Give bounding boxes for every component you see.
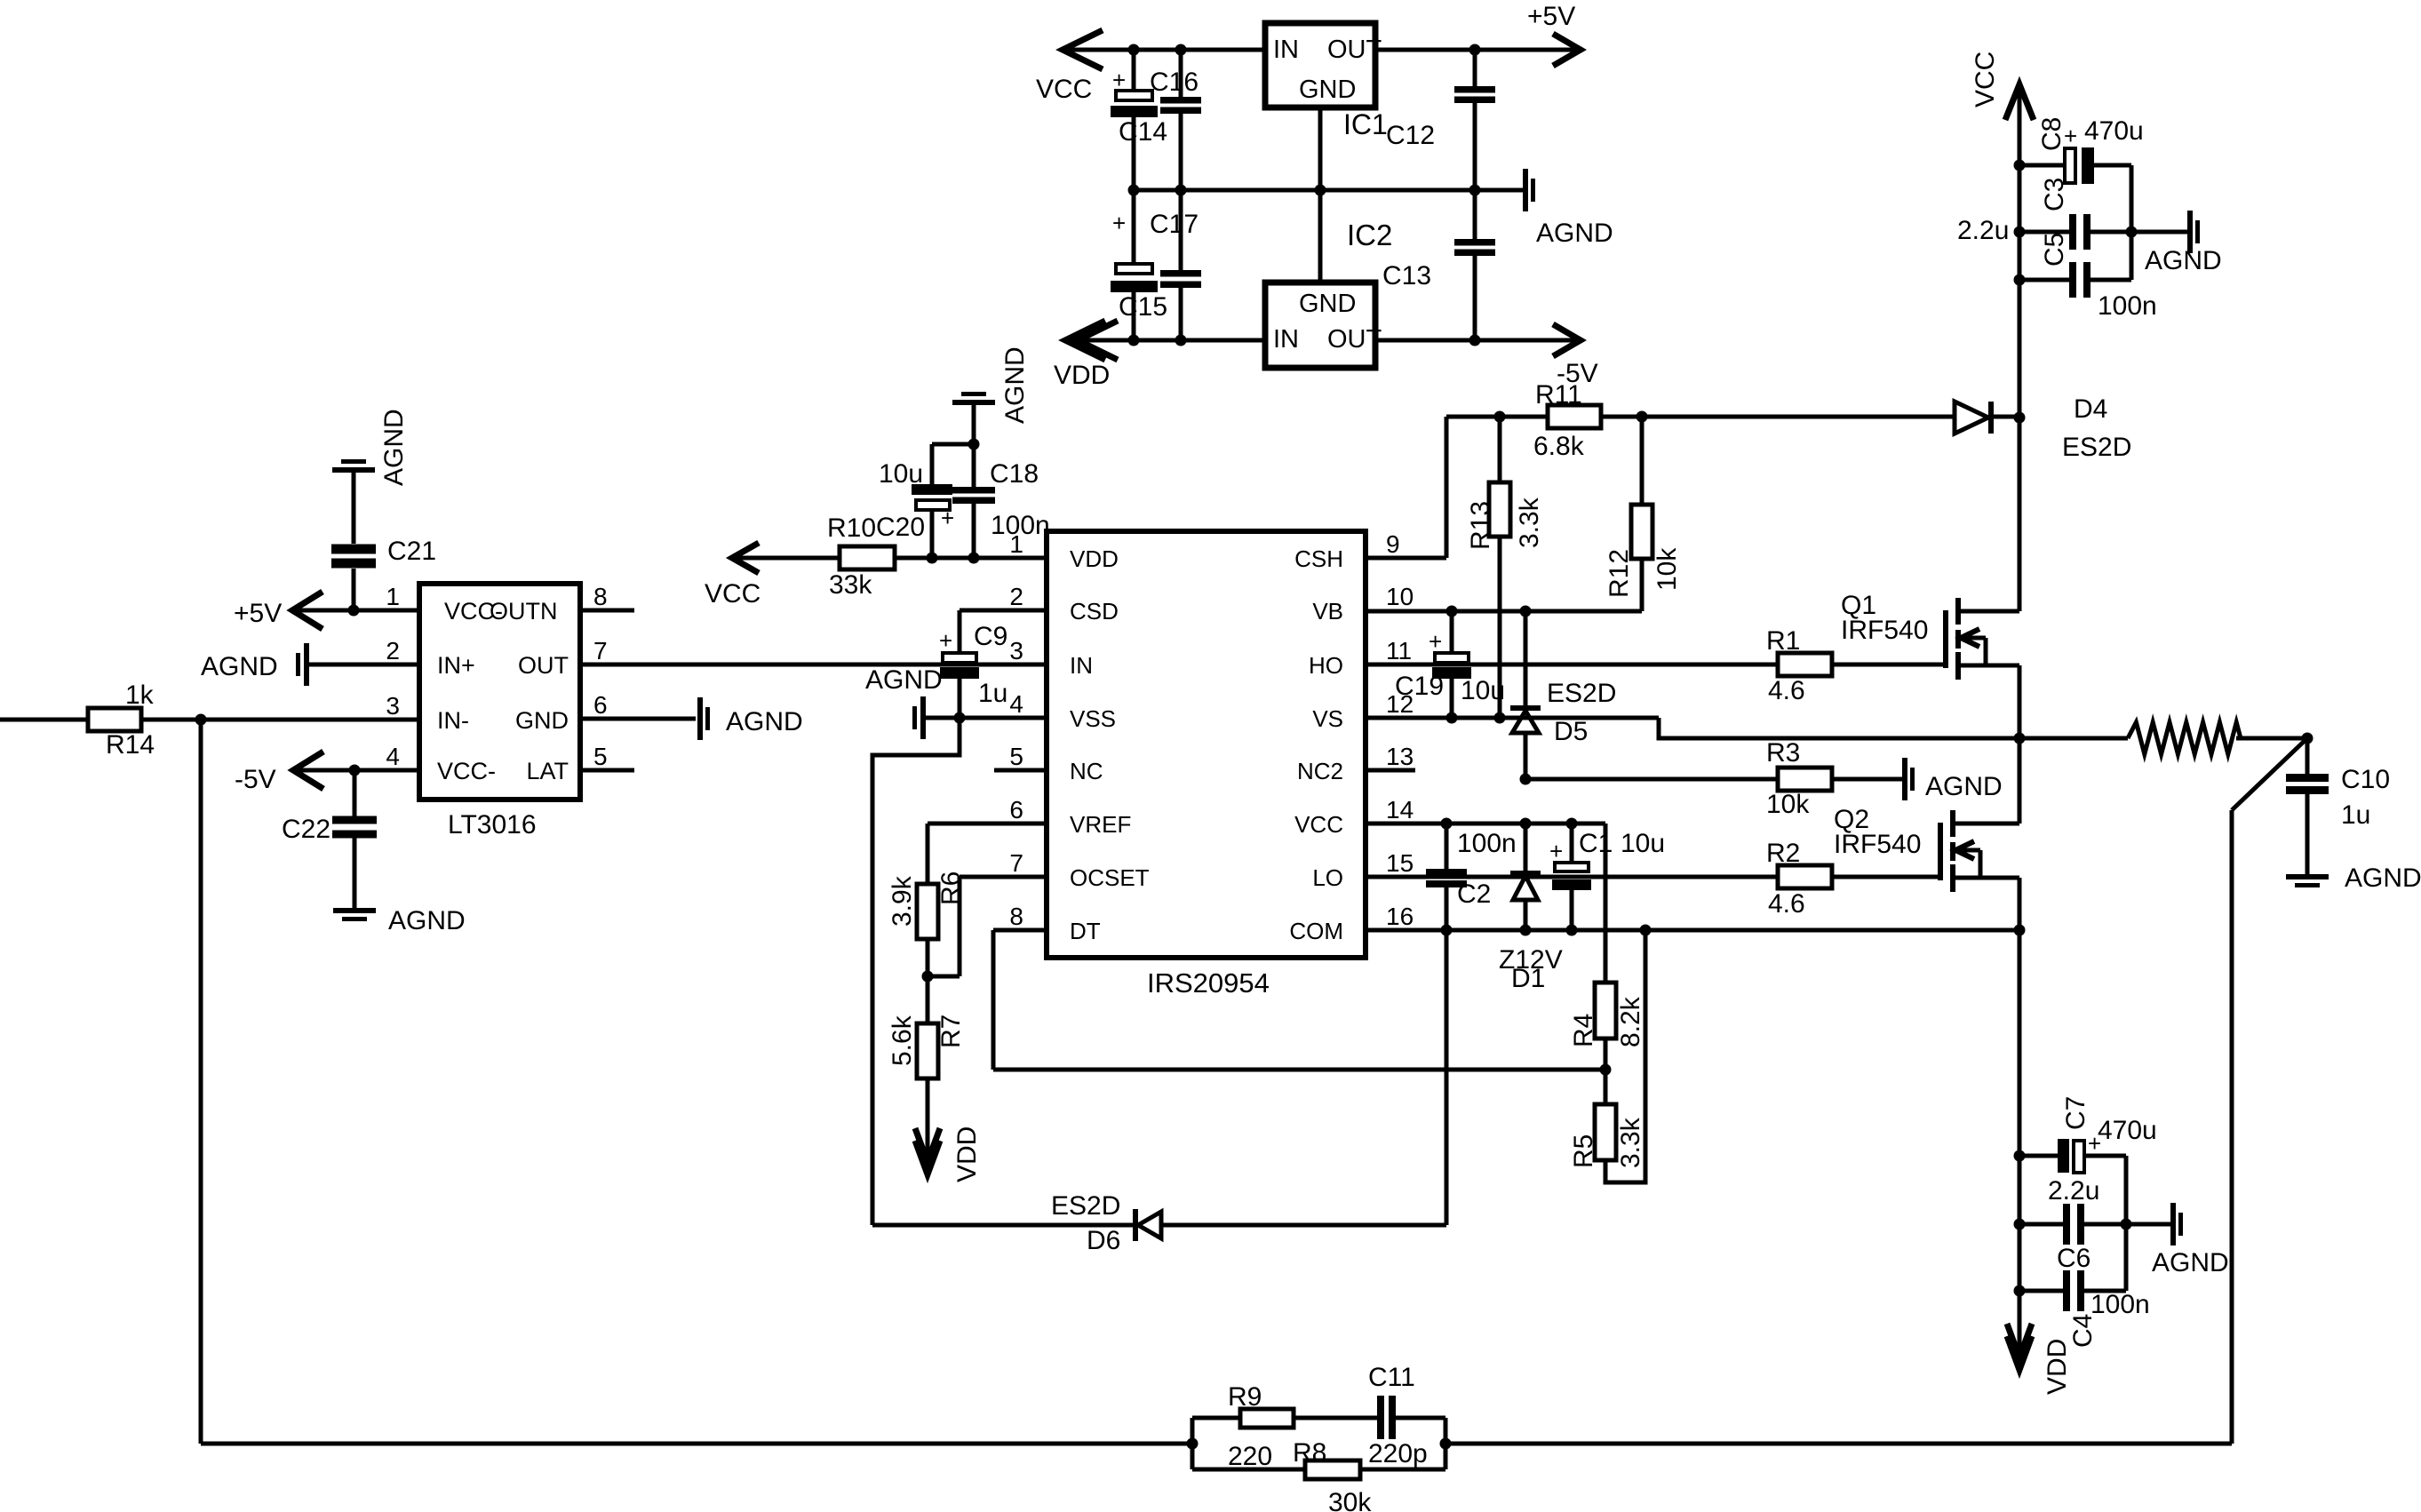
capacitor C9 1u (electrolytic) (939, 622, 1007, 718)
svg-text:2: 2 (386, 637, 400, 664)
wire D6 row (872, 1223, 1133, 1228)
junction R6/R7/OCSET (922, 971, 934, 983)
svg-text:ES2D: ES2D (1547, 679, 1616, 708)
wire input (0, 718, 88, 722)
svg-text:AGND: AGND (201, 652, 278, 681)
wire VREF pin 6 (928, 822, 1047, 826)
node DT/R4/R5 (1600, 1064, 1612, 1076)
svg-text:VDD: VDD (2043, 1339, 2072, 1395)
wire inductor to node (2236, 736, 2307, 741)
svg-text:C15: C15 (1119, 292, 1167, 322)
svg-text:VCC: VCC (1036, 75, 1092, 104)
power +5V (arrow, LT pin1) (234, 592, 323, 629)
capacitor C11 220p (1368, 1363, 1428, 1468)
wire COM pin 16 (1366, 928, 2019, 933)
ground AGND (C22) (333, 906, 466, 935)
junction input (195, 714, 207, 726)
svg-text:C7: C7 (2061, 1096, 2091, 1130)
svg-text:VCC: VCC (1294, 811, 1343, 838)
wire Q2 source rail down (2018, 930, 2022, 1291)
svg-text:GND: GND (1299, 76, 1356, 104)
svg-text:AGND: AGND (388, 906, 466, 935)
svg-text:OCSET: OCSET (1070, 864, 1150, 891)
svg-text:VCC-: VCC- (437, 758, 496, 784)
ground AGND (C10) (2286, 863, 2421, 893)
svg-text:C8: C8 (2037, 117, 2067, 151)
wire feedback loop left vertical (1191, 1418, 1195, 1469)
junction bottom rail (1128, 335, 1140, 346)
svg-text:R3: R3 (1766, 738, 1800, 768)
svg-text:OUT: OUT (518, 652, 569, 679)
svg-text:10u: 10u (1461, 676, 1505, 705)
svg-text:OUT: OUT (1327, 325, 1382, 354)
svg-text:3.9k: 3.9k (888, 875, 917, 927)
wire feedback bottom right (1445, 1442, 2232, 1446)
svg-text:5: 5 (593, 743, 608, 770)
svg-text:IRF540: IRF540 (1834, 830, 1921, 859)
svg-text:10k: 10k (1652, 547, 1682, 591)
wire top +V rail right (1375, 48, 1583, 52)
svg-text:OUTN: OUTN (490, 598, 558, 625)
svg-text:IRF540: IRF540 (1841, 616, 1928, 645)
wire VCC pin 14 (1366, 822, 1605, 826)
svg-text:D4: D4 (2074, 394, 2107, 424)
svg-text:1u: 1u (978, 679, 1007, 708)
pin numbers IRS left (1009, 530, 1023, 930)
svg-text:10: 10 (1386, 583, 1414, 610)
junction COM row (1441, 925, 1453, 936)
junction VSS (954, 712, 966, 724)
svg-text:C10: C10 (2341, 765, 2390, 794)
wire cap cluster right vertical (2130, 165, 2134, 280)
wire mid AGND rail (1134, 188, 1523, 193)
svg-text:13: 13 (1386, 743, 1414, 770)
svg-text:DT: DT (1070, 918, 1101, 944)
junction VB/VS/R3 (1446, 606, 1458, 617)
comparator LT3016 (419, 584, 580, 840)
svg-text:+: + (1429, 628, 1442, 655)
capacitor C4 (100n) (2019, 1270, 2150, 1348)
wire bottom -V rail left (1065, 338, 1265, 343)
svg-text:AGND: AGND (726, 707, 803, 736)
svg-text:+: + (1112, 67, 1126, 93)
wire CSH riser (1445, 417, 1449, 558)
ground AGND (LT pin6) (697, 697, 803, 740)
inductor output filter (2128, 722, 2241, 754)
svg-text:30k: 30k (1328, 1488, 1372, 1512)
svg-text:AGND: AGND (2145, 246, 2222, 275)
svg-text:D6: D6 (1087, 1226, 1120, 1255)
svg-text:+: + (1112, 210, 1126, 236)
svg-text:R5: R5 (1569, 1134, 1598, 1168)
svg-text:R7: R7 (936, 1015, 966, 1048)
junction LT pins (348, 605, 360, 617)
svg-text:2: 2 (1009, 583, 1023, 610)
ground AGND (C6) (2126, 1203, 2229, 1277)
svg-text:8.2k: 8.2k (1616, 996, 1645, 1047)
svg-text:+: + (941, 505, 954, 531)
junction VCC row (1441, 818, 1453, 830)
svg-text:D5: D5 (1554, 717, 1588, 746)
wire CSH pin 9 (1366, 556, 1446, 561)
svg-text:4.6: 4.6 (1768, 889, 1805, 919)
svg-text:3.3k: 3.3k (1616, 1117, 1645, 1168)
junction feedback right (1440, 1438, 1452, 1450)
wire C14/C15 vertical (1132, 50, 1136, 91)
svg-text:10u: 10u (1621, 829, 1665, 858)
svg-text:IN: IN (1273, 36, 1299, 64)
capacitor C7 (electrolytic 470u) (2019, 1096, 2157, 1173)
svg-text:AGND: AGND (379, 409, 409, 486)
svg-text:C12: C12 (1386, 121, 1435, 150)
wire LO pin 15 (1366, 875, 1778, 879)
svg-text:NC2: NC2 (1297, 758, 1343, 784)
wire IN pin 3 (from LT3016 OUT) (580, 663, 1047, 667)
svg-text:VS: VS (1312, 705, 1343, 732)
wire feedback loop right vertical (1444, 1418, 1448, 1469)
svg-text:AGND: AGND (1000, 346, 1030, 424)
diode D5 ES2D (1510, 611, 1616, 779)
wire Q1 drain to VCC (2018, 418, 2022, 611)
svg-text:C13: C13 (1382, 261, 1431, 290)
resistor R13 3.3k (1466, 417, 1544, 718)
svg-text:VB: VB (1312, 598, 1343, 625)
svg-text:C4: C4 (2068, 1314, 2098, 1348)
svg-text:GND: GND (515, 707, 569, 734)
svg-text:R9: R9 (1228, 1382, 1262, 1412)
ground AGND (VSS) (865, 665, 943, 739)
svg-text:+: + (939, 627, 952, 654)
svg-text:7: 7 (1009, 849, 1023, 877)
svg-text:C16: C16 (1150, 68, 1199, 97)
svg-text:C18: C18 (990, 459, 1039, 489)
svg-text:14: 14 (1386, 796, 1414, 824)
svg-text:C21: C21 (387, 537, 436, 566)
resistor R7 5.6k (888, 976, 966, 1169)
svg-text:LO: LO (1312, 864, 1343, 891)
power +5V (top rail arrow) (1527, 2, 1581, 66)
wire OCSET pin 7 (960, 875, 1047, 879)
wire C7/C6/C4 right vertical (2124, 1156, 2129, 1291)
ground AGND (C21) (332, 409, 409, 486)
wire feedback loop top (1192, 1416, 1240, 1420)
svg-text:C2: C2 (1457, 879, 1491, 909)
svg-text:11: 11 (1386, 637, 1412, 664)
svg-text:AGND: AGND (1536, 219, 1613, 248)
wire C16/C17 vertical (1179, 50, 1183, 97)
svg-text:C6: C6 (2057, 1244, 2091, 1273)
svg-text:IN: IN (1273, 325, 1299, 354)
svg-text:6: 6 (593, 691, 608, 719)
junction output RC node (2302, 733, 2313, 744)
resistor R12 10k (1605, 417, 1682, 611)
wire HO pin 11 (1366, 663, 1778, 667)
svg-text:1: 1 (386, 583, 400, 610)
svg-text:+5V: +5V (1527, 2, 1575, 31)
wire LT pin 8 stub (580, 609, 634, 613)
svg-text:R8: R8 (1293, 1438, 1326, 1468)
svg-text:LT3016: LT3016 (448, 810, 537, 840)
wire feedback diagonal (2232, 738, 2307, 810)
capacitor C22 (282, 770, 377, 908)
wire feedback right vertical (2230, 810, 2234, 1444)
capacitor C6 (2.2u) (2019, 1176, 2126, 1273)
junction top rail (1128, 44, 1140, 56)
svg-text:IC2: IC2 (1347, 219, 1392, 251)
power -5V (bottom rail arrow) (1553, 324, 1581, 356)
svg-text:C1: C1 (1579, 829, 1613, 858)
power -5V (arrow, LT pin4) (235, 752, 323, 794)
voltage regulator IC1 (1265, 23, 1388, 140)
resistor R11 6.8k (1533, 380, 1601, 461)
svg-text:470u: 470u (2098, 1116, 2157, 1145)
svg-text:VREF: VREF (1070, 811, 1131, 838)
wire bottom -V rail right (1375, 338, 1583, 343)
power VCC (arrow up, right) (1971, 52, 2034, 120)
svg-text:15: 15 (1386, 849, 1414, 877)
resistor R9 220 (1228, 1382, 1294, 1471)
svg-text:3.3k: 3.3k (1515, 497, 1544, 548)
svg-text:100n: 100n (1457, 829, 1517, 858)
power VDD (bottom rail arrow) (1054, 321, 1118, 390)
capacitor C19 10u (electrolytic) (1395, 611, 1505, 718)
svg-text:R2: R2 (1766, 839, 1800, 868)
svg-text:VCC: VCC (705, 579, 761, 609)
svg-text:2.2u: 2.2u (2048, 1176, 2099, 1206)
svg-text:470u: 470u (2084, 116, 2144, 146)
wire Q2 drain to output (2018, 738, 2022, 824)
driver IC IRS20954 (1047, 531, 1366, 999)
junction VDD rail (2014, 1150, 2026, 1162)
wire LT pin 4 (293, 768, 419, 773)
svg-text:100n: 100n (2091, 1290, 2150, 1319)
ground AGND (VCC cluster) (2131, 211, 2222, 275)
junction feedback left (1187, 1438, 1199, 1450)
capacitor C5 (100n) (2019, 233, 2157, 321)
svg-text:8: 8 (1009, 903, 1023, 930)
wire VSS pin 4 (926, 716, 1047, 720)
svg-text:4.6: 4.6 (1768, 676, 1805, 705)
wire NC pin 5 stub (994, 768, 1047, 773)
svg-text:10u: 10u (879, 459, 923, 489)
wire NC2 pin 13 stub (1366, 768, 1415, 773)
wire R11 row (1446, 415, 1548, 419)
wire LT pin 2 (309, 663, 419, 667)
capacitor C1 10u (electrolytic) (1549, 824, 1665, 930)
svg-text:3: 3 (386, 692, 400, 720)
svg-text:VDD: VDD (1054, 361, 1110, 390)
resistor R6 3.9k (888, 871, 966, 976)
svg-text:+: + (1549, 838, 1563, 864)
svg-text:D1: D1 (1511, 964, 1545, 993)
capacitor C2 100n (1426, 824, 1517, 930)
svg-text:VDD: VDD (952, 1126, 982, 1182)
svg-text:3: 3 (1009, 637, 1023, 664)
wire feedback loop bottom (1192, 1468, 1305, 1472)
diode D4 ES2D (1955, 394, 2131, 462)
svg-text:R1: R1 (1766, 626, 1800, 656)
junction mid rail (1128, 185, 1140, 196)
svg-text:GND: GND (1299, 290, 1356, 318)
wire C12/C13 vertical (1473, 50, 1477, 86)
svg-text:R14: R14 (106, 730, 155, 760)
svg-text:OUT: OUT (1327, 36, 1382, 64)
capacitor C3 (2.2u) (1957, 178, 2131, 250)
junction R11 row (1494, 411, 1506, 423)
ground AGND (mid rail) (1523, 169, 1613, 248)
svg-text:R4: R4 (1569, 1014, 1598, 1047)
svg-text:7: 7 (593, 637, 608, 664)
svg-text:-5V: -5V (235, 765, 276, 794)
svg-text:C19: C19 (1395, 672, 1444, 701)
svg-text:C5: C5 (2040, 233, 2069, 267)
svg-text:33k: 33k (829, 570, 872, 600)
svg-text:2.2u: 2.2u (1957, 216, 2009, 245)
svg-text:NC: NC (1070, 758, 1103, 784)
svg-text:C14: C14 (1119, 117, 1167, 147)
svg-text:16: 16 (1386, 903, 1414, 930)
wire output to inductor (2019, 736, 2128, 741)
svg-text:CSD: CSD (1070, 598, 1119, 625)
pin numbers LT3016 (386, 583, 607, 770)
svg-text:VDD: VDD (1070, 545, 1119, 572)
zener diode D1 Z12V (1499, 824, 1563, 993)
svg-text:220: 220 (1228, 1442, 1272, 1471)
svg-text:R10: R10 (827, 513, 876, 543)
svg-text:R12: R12 (1605, 549, 1634, 598)
labels Q1/Q2 side (0, 0, 1, 1)
svg-text:IN-: IN- (437, 707, 469, 734)
wire IC2 GND (1318, 190, 1323, 283)
svg-text:LAT: LAT (526, 758, 569, 784)
ground AGND (C18) (952, 346, 1030, 424)
diode D6 ES2D (1051, 1191, 1161, 1255)
svg-text:100n: 100n (991, 511, 1050, 540)
svg-text:R13: R13 (1466, 501, 1495, 550)
transistor Q1 IRF540 (1841, 591, 2019, 680)
wire LT pin 5 stub (580, 768, 634, 773)
capacitor C16 (1150, 68, 1201, 114)
junction VCC cluster (2014, 160, 2026, 171)
pin numbers IRS right (1386, 530, 1414, 930)
wire R14 to LT pin3 (141, 718, 419, 722)
svg-text:9: 9 (1386, 530, 1400, 558)
svg-text:ES2D: ES2D (2062, 433, 2131, 462)
junction output node (2014, 733, 2026, 744)
svg-text:4: 4 (1009, 690, 1023, 718)
wire VSS drop to D6 (872, 718, 960, 1225)
wire D6 riser from COM (1445, 930, 1449, 1225)
svg-text:R11: R11 (1535, 380, 1582, 410)
wire VB pin 10 (1366, 609, 1642, 614)
svg-text:8: 8 (593, 583, 608, 610)
svg-text:C11: C11 (1368, 1363, 1415, 1392)
svg-text:IC1: IC1 (1343, 108, 1388, 140)
svg-text:C17: C17 (1150, 210, 1199, 239)
capacitor C20 (electrolytic 10u) (876, 444, 954, 558)
svg-text:+5V: +5V (234, 599, 282, 628)
power VCC (top rail arrow) (1036, 30, 1103, 104)
svg-text:VSS: VSS (1070, 705, 1116, 732)
resistor R14 1k (88, 680, 155, 760)
power VDD (arrow down, R7) (915, 1126, 982, 1182)
svg-text:5: 5 (1009, 743, 1023, 770)
resistor R8 30k (1293, 1438, 1372, 1512)
svg-text:6: 6 (1009, 796, 1023, 824)
wire VCC vertical (2018, 84, 2022, 418)
svg-text:5.6k: 5.6k (888, 1015, 917, 1066)
resistor R1 4.6 (1766, 626, 1832, 705)
svg-text:VCC: VCC (1971, 52, 2000, 107)
svg-text:C9: C9 (974, 622, 1007, 651)
capacitor C13 (1382, 239, 1495, 290)
svg-text:1u: 1u (2341, 800, 2370, 830)
wire Q2 source to COM (2018, 878, 2022, 930)
svg-text:220p: 220p (1368, 1439, 1428, 1468)
wire DT pin 8 (993, 928, 1047, 933)
svg-text:AGND: AGND (865, 665, 943, 695)
wire IC1 GND (1318, 107, 1323, 190)
svg-text:HO: HO (1309, 652, 1343, 679)
svg-text:C22: C22 (282, 815, 330, 844)
capacitor C8 (electrolytic 470u) (2019, 116, 2144, 184)
wire input feedback vertical (199, 720, 203, 1444)
capacitor C12 (1386, 86, 1495, 150)
junction pin1 line (927, 553, 938, 564)
svg-text:ES2D: ES2D (1051, 1191, 1120, 1221)
resistor R5 3.3k (1569, 930, 1645, 1182)
wire CSD pin 2 (960, 609, 1047, 613)
svg-text:10k: 10k (1766, 790, 1810, 819)
wire VDD pin 1 (895, 556, 1047, 561)
resistor R10 33k (827, 513, 895, 600)
transistor Q2 IRF540 (1834, 805, 2019, 892)
svg-text:C3: C3 (2040, 178, 2069, 211)
capacitor C15 (electrolytic) (1111, 210, 1167, 322)
resistor R4 8.2k (1569, 983, 1645, 1104)
voltage regulator IC2 (1265, 219, 1392, 368)
svg-text:C20: C20 (876, 513, 925, 542)
wire Q1 source to output (2018, 665, 2022, 738)
capacitor C17 (1150, 210, 1201, 288)
svg-text:IN+: IN+ (437, 652, 475, 679)
svg-text:AGND: AGND (2345, 863, 2421, 893)
capacitor C18 (100n) (952, 405, 1050, 558)
wire LT pin 6 (580, 717, 696, 721)
svg-text:6.8k: 6.8k (1533, 432, 1585, 461)
capacitor C14 (electrolytic) (1111, 67, 1167, 147)
resistor R2 4.6 (1766, 839, 1832, 919)
svg-text:1k: 1k (125, 680, 155, 710)
power VDD (arrow down, right) (2007, 1291, 2072, 1395)
svg-text:IRS20954: IRS20954 (1147, 967, 1270, 999)
svg-text:4: 4 (386, 743, 400, 770)
wire VS pin 12 (1366, 716, 1659, 720)
svg-text:IN: IN (1070, 652, 1093, 679)
power VCC (arrow left, R10) (705, 543, 761, 609)
resistor R3 10k (1525, 738, 1902, 819)
wire C18/C20 top jog (932, 442, 974, 447)
ground AGND (LT pin2) (201, 643, 309, 686)
wire feedback bottom left (201, 1442, 1192, 1446)
capacitor C10 1u (2286, 738, 2390, 874)
capacitor C21 (331, 473, 436, 610)
svg-text:AGND: AGND (1925, 772, 2003, 801)
wire top +V rail left (1063, 48, 1265, 52)
svg-text:COM: COM (1289, 918, 1343, 944)
svg-text:CSH: CSH (1294, 545, 1343, 572)
svg-text:AGND: AGND (2152, 1248, 2229, 1277)
